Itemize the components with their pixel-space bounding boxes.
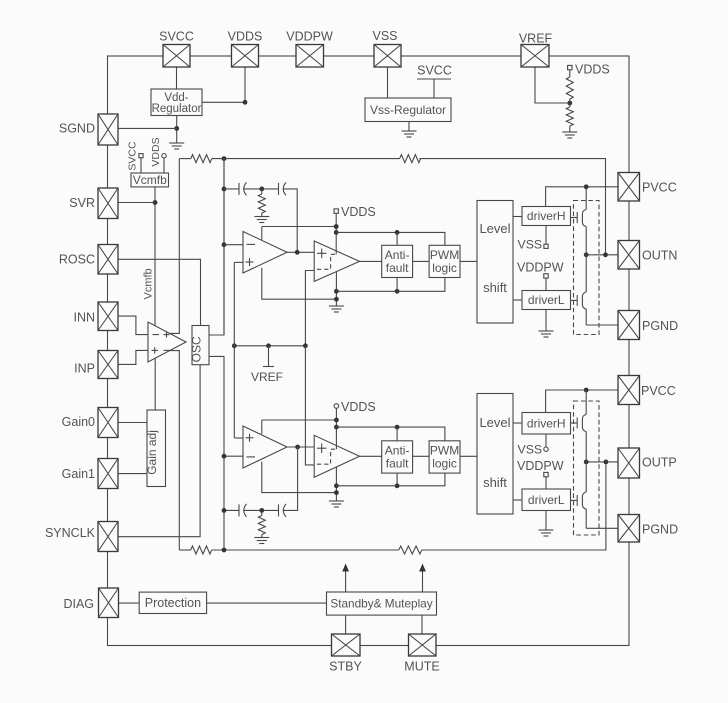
svg-text:Protection: Protection <box>145 596 201 610</box>
op-amp U8 integrator ch1 <box>243 232 287 274</box>
wire input amp out+ to summing node 1 <box>170 159 180 334</box>
svg-text:INP: INP <box>74 362 95 376</box>
svg-text:Vcmfb: Vcmfb <box>143 268 155 299</box>
resistor R divider lower <box>566 107 573 126</box>
block Vcmfb U4 <box>131 173 169 187</box>
ground Vss-Regulator ground <box>402 131 417 137</box>
wire U12 supply line <box>262 419 337 421</box>
minus sign U6 in- <box>153 334 160 336</box>
junction cap junction ch1 <box>259 187 264 192</box>
wire Q4 drain to node <box>585 462 587 492</box>
pad Gain0 <box>98 408 118 438</box>
svg-text:ROSC: ROSC <box>59 253 95 267</box>
svg-text:PGND: PGND <box>642 523 678 537</box>
pad OUTP <box>618 448 640 478</box>
wire R to ground ch2 <box>261 535 263 538</box>
wire OSC to integrator2 node <box>209 356 224 550</box>
wire pwm to level shift ch2 <box>460 455 477 457</box>
half-bridge dashed box ch1 <box>574 201 600 335</box>
ground driverL1 ground <box>539 331 554 337</box>
wire cap junction to R stem ch1 <box>261 189 263 194</box>
wire Vss-Regulator ground stem <box>408 122 410 132</box>
pad STBY <box>332 634 361 656</box>
block Vss-Regulator U3 <box>365 98 451 122</box>
wire OSC to integrator1 node <box>209 159 224 335</box>
wire driverL1 gate lead <box>571 299 578 301</box>
junction PVCC-FET tap ch2 <box>584 388 589 393</box>
svg-text:shift: shift <box>483 280 507 295</box>
wire Q4 source to PGND <box>585 509 587 528</box>
block Anti-fault U14 ch2 <box>382 441 413 473</box>
block Level shift U19 ch2 <box>477 394 513 515</box>
svg-text:Standby& Muteplay: Standby& Muteplay <box>330 597 432 611</box>
wire triangle wave input ch1 <box>305 271 314 346</box>
junction VDDS rail tap ch1 <box>334 230 339 235</box>
wire U8 return exit <box>262 268 337 300</box>
pad PVCC ch1 <box>618 173 640 202</box>
junction cap junction ch2 <box>259 508 264 513</box>
svg-text:OUTN: OUTN <box>642 249 677 263</box>
junction antifault top tap ch1 <box>395 230 400 235</box>
svg-text:VDDS: VDDS <box>228 30 263 44</box>
resistor R feedback ch1 <box>400 155 421 163</box>
svg-text:VSS: VSS <box>518 238 543 252</box>
minus sign U6 out- <box>164 349 170 351</box>
wire antifault bottom stub ch2 <box>396 473 398 486</box>
svg-text:VDDS: VDDS <box>341 400 376 414</box>
plus sign U6 in+ <box>152 347 159 353</box>
svg-text:SYNCLK: SYNCLK <box>45 526 96 540</box>
wire comparator2 output <box>360 455 382 457</box>
transistor Q4 low-side ch2 <box>577 492 586 509</box>
svg-text:INN: INN <box>73 311 95 325</box>
pad VSS <box>374 45 401 68</box>
junction half-bridge node ch1 <box>584 252 589 257</box>
wire LS to driverH ch2 <box>513 422 522 424</box>
wire VDDS terminal stem <box>569 70 571 77</box>
wire minus input wire ch1 <box>224 244 243 246</box>
wire LS to driverL ch1 <box>513 299 522 301</box>
wire pwm to level shift ch1 <box>460 260 477 262</box>
svg-text:SVCC: SVCC <box>127 141 139 171</box>
wire return rail ch1 <box>336 278 445 292</box>
capacitor C3 ch2 <box>239 504 247 517</box>
wire VREF symbol stem <box>268 346 270 367</box>
wire VDDS rail ch1 <box>336 232 445 245</box>
junction minus input node ch2 <box>222 454 227 459</box>
svg-text:Vcmfb: Vcmfb <box>133 173 167 187</box>
wire feedback net OUTN segment c <box>419 159 605 255</box>
wire feedback net OUTP segment c <box>422 462 606 550</box>
wire U8 output <box>287 251 314 253</box>
svg-text:PWM: PWM <box>430 248 459 262</box>
wire SVR pad to Vcmfb line <box>118 202 155 204</box>
block Standby and Muteplay U23 <box>327 592 437 615</box>
wire antifault to pwm ch1 <box>413 260 430 262</box>
block driverL U21 ch2 <box>522 489 571 511</box>
junction VDDS supply tap ch1 <box>334 224 339 229</box>
wire SVCC pad to Vdd-Regulator <box>176 67 178 89</box>
wire feedback net OUTP segment a <box>179 549 190 551</box>
op-amp U12 integrator ch2 <box>243 426 287 468</box>
junction integrator2 output node <box>295 445 300 450</box>
wire divider to ground <box>569 126 571 132</box>
wire Q3 source to node <box>585 432 587 462</box>
pad MUTE <box>409 634 437 656</box>
pad Gain1 <box>98 459 118 489</box>
block driverH U17 ch1 <box>522 207 571 226</box>
junction antifault top tap ch2 <box>395 425 400 430</box>
VDDPW terminal ch2 <box>544 472 548 476</box>
wire VREF rail <box>234 345 305 347</box>
junction integrator return tap ch2 <box>334 490 339 495</box>
wire INN pad to input amp <box>118 316 148 335</box>
wire Q2 drain to node <box>585 255 587 292</box>
svg-text:VDDS: VDDS <box>341 205 376 219</box>
wire OUTN wire <box>586 254 618 256</box>
junction PVCC-FET tap ch1 <box>584 184 589 189</box>
wire VDDS stem ch1 <box>335 213 337 254</box>
wire minus input wire ch2 <box>224 455 243 457</box>
wire VSS pad to Vss-Regulator <box>387 67 389 98</box>
wire driverH2 to VSS terminal <box>545 434 547 447</box>
SVCC rail bar <box>417 78 451 80</box>
junction cap node ch1 <box>222 187 227 192</box>
svg-text:VSS: VSS <box>518 443 543 457</box>
VDDS terminal square top-right <box>568 65 572 69</box>
pad PGND ch1 <box>618 311 640 340</box>
resistor R divider upper <box>566 77 573 99</box>
capacitor C4 ch2 <box>279 504 287 517</box>
wire R to ground ch1 <box>261 213 263 217</box>
transistor Q3 high-side ch2 <box>577 415 586 432</box>
svg-text:shift: shift <box>483 475 507 490</box>
wire antifault to pwm ch2 <box>413 455 430 457</box>
capacitor C1 ch1 <box>239 182 247 195</box>
svg-text:OSC: OSC <box>190 336 204 362</box>
wire PVCC wire ch1 <box>546 187 618 207</box>
svg-text:Level: Level <box>479 415 510 430</box>
junction antifault bottom tap ch2 <box>395 483 400 488</box>
pad PGND ch2 <box>618 515 640 543</box>
junction VDDS supply tap ch2 <box>334 418 339 423</box>
VDDS terminal circle ch2 <box>334 404 339 409</box>
pad ROSC <box>98 245 118 275</box>
svg-text:logic: logic <box>432 261 457 275</box>
comparator U9 ch1 <box>314 241 359 281</box>
block Vdd-Regulator U2 <box>151 89 202 116</box>
svg-text:VREF: VREF <box>251 370 283 384</box>
VSS terminal ch1 <box>544 244 548 248</box>
wire LS to driverH ch1 <box>513 216 522 218</box>
minus sign U12 <box>247 456 256 458</box>
wire VDDS rail ch2 <box>336 427 445 441</box>
plus sign U8 <box>246 258 254 266</box>
svg-text:Vss-Regulator: Vss-Regulator <box>370 103 446 117</box>
chip outer border <box>108 56 630 646</box>
resistor R cap ch2 <box>258 516 265 535</box>
wire comparator2 return <box>335 467 337 501</box>
svg-text:Anti-: Anti- <box>385 444 410 458</box>
pad DIAG <box>99 588 119 618</box>
svg-text:Gain adj: Gain adj <box>145 430 159 475</box>
transistor Q1 high-side ch1 <box>577 210 586 227</box>
wire SGND pad to ground node <box>118 127 177 129</box>
wire driverL2 ground stem <box>545 511 547 531</box>
svg-text:OUTP: OUTP <box>642 456 677 470</box>
pad OUTN <box>618 241 640 270</box>
wire Vcmfb to input amp <box>154 187 156 326</box>
wire ROSC pad to OSC <box>118 259 201 325</box>
svg-text:STBY: STBY <box>329 660 362 674</box>
junction VDDS rail tap ch2 <box>334 425 339 430</box>
wire Q2 source to PGND <box>585 309 587 325</box>
wire standby control arrow line 2 <box>422 567 424 592</box>
wire plus input wire ch1 <box>234 261 243 263</box>
svg-text:VREF: VREF <box>519 32 553 46</box>
VDDS terminal square ch1 <box>334 209 338 213</box>
junction half-bridge node ch2 <box>584 460 589 465</box>
wire Q1 drain <box>585 187 587 210</box>
svg-text:SVCC: SVCC <box>159 30 194 44</box>
wire SYNCLK pad to OSC <box>118 365 200 537</box>
wire comparator1 output <box>360 260 382 262</box>
wire PGND wire ch2 <box>586 527 618 529</box>
pad INN <box>98 302 118 331</box>
junction summing node ch2 <box>222 548 227 553</box>
wire driverH1 to VSS terminal <box>545 226 547 245</box>
wire Gain0 pad to Gain adj <box>118 422 147 424</box>
wire integrator1 input node vertical <box>223 159 225 335</box>
svg-text:Anti-: Anti- <box>385 248 410 262</box>
junction minus input node ch1 <box>222 242 227 247</box>
junction return rail tap ch2 <box>334 483 339 488</box>
svg-text:Gain0: Gain0 <box>62 415 95 429</box>
pad SGND <box>98 114 118 145</box>
wire U8 supply entry <box>261 227 263 241</box>
minus sign U8 <box>247 243 256 245</box>
hysteresis symbol U13 <box>317 449 338 464</box>
wire return rail ch2 <box>336 473 445 486</box>
svg-text:driverL: driverL <box>528 493 565 507</box>
svg-text:VDDPW: VDDPW <box>517 459 564 473</box>
wire U12 return exit <box>262 462 337 493</box>
pad VDDS <box>232 45 259 68</box>
wire SVCC terminal to Vcmfb <box>140 158 142 173</box>
junction divider midpoint <box>567 101 572 106</box>
svg-text:VDDS: VDDS <box>575 63 610 77</box>
wire U12 supply entry <box>261 420 263 434</box>
block Level shift U16 ch1 <box>477 201 513 324</box>
wire LS to driverL ch2 <box>513 499 522 501</box>
plus sign U12 <box>246 434 254 442</box>
wire SVCC bar to Vss-Regulator <box>433 79 435 98</box>
junction SGND node <box>174 126 179 131</box>
transistor Q2 low-side ch1 <box>577 292 586 309</box>
junction antifault bottom tap ch1 <box>395 289 400 294</box>
block OSC U5 <box>192 326 209 365</box>
plus sign U9 <box>317 249 327 259</box>
junction cap node ch2 <box>222 508 227 513</box>
svg-text:Regulator: Regulator <box>152 103 202 115</box>
pad PVCC ch2 <box>618 376 640 405</box>
pad SYNCLK <box>98 522 118 552</box>
svg-text:driverL: driverL <box>528 293 565 307</box>
svg-text:SVCC: SVCC <box>417 64 452 78</box>
wire U12 output <box>287 446 314 448</box>
hysteresis symbol U9 <box>317 254 338 269</box>
wire VREF pad to divider <box>535 67 570 103</box>
wire feedback net OUTP segment b <box>212 549 399 551</box>
wire cap junction to R stem ch2 <box>261 510 263 515</box>
svg-text:MUTE: MUTE <box>404 660 439 674</box>
svg-text:driverH: driverH <box>527 209 566 223</box>
wire DIAG pad to Protection <box>119 602 140 604</box>
wire antifault top stub ch2 <box>396 427 398 441</box>
pad SVR <box>98 188 118 219</box>
arrowhead 1 <box>342 564 349 572</box>
junction integrator1 output node <box>295 250 300 255</box>
block driverH U20 ch2 <box>522 413 571 435</box>
svg-text:PWM: PWM <box>430 444 459 458</box>
wire Vdd-Regulator ground stem <box>176 116 178 144</box>
svg-text:fault: fault <box>386 261 409 275</box>
VDDS terminal circle <box>162 154 166 158</box>
wire driverH2 gate lead <box>571 422 578 424</box>
wire PVCC wire ch2 <box>546 390 618 413</box>
SVCC terminal square <box>139 154 143 158</box>
capacitor C2 ch1 <box>279 182 287 195</box>
svg-text:PGND: PGND <box>642 319 678 333</box>
junction VREF rail right <box>303 343 308 348</box>
wire VDDPW terminal to driverL1 <box>545 278 547 290</box>
resistor R cap ch1 <box>258 194 265 213</box>
plus sign U13 <box>317 443 327 453</box>
wire cap feedback line ch2 <box>224 447 298 510</box>
pad VDDPW <box>296 45 324 68</box>
junction feedback tap OUTN <box>603 252 608 257</box>
resistor R input ch2 <box>191 546 212 554</box>
svg-text:SVR: SVR <box>69 196 95 210</box>
junction VREF rail left <box>232 343 237 348</box>
wire Protection to Standby <box>207 602 327 604</box>
plus sign U6 out+ <box>164 332 170 338</box>
wire VDDS terminal to Vcmfb <box>163 158 165 173</box>
resistor R feedback ch2 <box>399 546 422 554</box>
wire Q3 drain <box>585 390 587 415</box>
wire STBY pad stem <box>345 615 347 634</box>
svg-text:DIAG: DIAG <box>63 597 94 611</box>
wire divider mid segment <box>569 99 571 107</box>
wire antifault bottom stub ch1 <box>396 278 398 292</box>
block PWM logic U11 ch1 <box>429 245 460 277</box>
junction return rail tap ch1 <box>334 289 339 294</box>
wire VDDPW terminal to driverL2 <box>545 477 547 489</box>
wire input amp out- to summing node 2 <box>170 351 180 550</box>
junction SVR-Vcmfb junction <box>153 200 158 205</box>
wire comparator1 return <box>335 272 337 306</box>
ground SGND ground <box>169 143 184 149</box>
wire feedback net OUTN segment b <box>212 158 400 160</box>
wire INP pad to input amp <box>118 350 148 364</box>
wire driverL1 ground stem <box>545 310 547 332</box>
wire antifault top stub ch1 <box>396 232 398 245</box>
junction integrator return tap ch1 <box>334 297 339 302</box>
junction VREF rail tap <box>266 343 271 348</box>
VDDPW terminal ch1 <box>544 274 548 278</box>
wire PGND wire ch1 <box>586 324 618 326</box>
wire plus input wire ch2 <box>234 437 243 439</box>
svg-text:VDDPW: VDDPW <box>286 30 333 44</box>
block Protection U22 <box>139 592 206 613</box>
wire VDDS pad to Vdd-Regulator output <box>202 67 245 102</box>
VSS terminal ch2 <box>544 447 548 451</box>
svg-text:fault: fault <box>386 457 409 471</box>
block PWM logic U15 ch2 <box>429 441 460 473</box>
op-amp U6 input stage <box>148 322 186 362</box>
wire MUTE pad stem <box>421 615 423 634</box>
wire cap feedback line ch1 <box>224 189 297 252</box>
junction VDDS-regulator junction <box>243 100 248 105</box>
VREF rail bar <box>263 366 274 368</box>
svg-text:VDDPW: VDDPW <box>517 261 564 275</box>
junction feedback tap OUTP <box>604 460 609 465</box>
wire OUTP wire <box>586 461 618 463</box>
wire driverL2 gate lead <box>571 499 578 501</box>
wire Q1 source to node <box>585 227 587 255</box>
svg-text:VSS: VSS <box>372 29 397 43</box>
ground cap network ground ch2 <box>254 538 269 544</box>
ground logic ground ch2 <box>329 501 344 507</box>
arrowhead 2 <box>419 564 426 572</box>
wire U8 supply line <box>262 226 336 228</box>
wire standby control arrow line 1 <box>345 567 347 592</box>
comparator U13 ch2 <box>314 435 359 477</box>
svg-text:driverH: driverH <box>527 416 566 430</box>
block driverL U18 ch1 <box>522 291 571 310</box>
resistor R input ch1 <box>191 155 212 163</box>
ground driverL2 ground <box>539 530 554 536</box>
wire feedback net OUTN segment a <box>179 158 191 160</box>
junction summing node ch1 <box>222 156 227 161</box>
ground logic ground ch1 <box>329 306 344 312</box>
svg-text:SGND: SGND <box>59 122 95 136</box>
ground cap network ground ch1 <box>254 217 269 223</box>
ground divider ground <box>562 132 577 138</box>
svg-text:logic: logic <box>432 457 457 471</box>
svg-text:VDDS: VDDS <box>150 137 162 166</box>
pad INP <box>98 351 118 379</box>
wire Gain1 pad to Gain adj <box>118 473 147 475</box>
half-bridge dashed box ch2 <box>574 401 600 535</box>
block Gain adj U7 <box>147 410 166 487</box>
wire VREF to integrator plus inputs <box>233 262 235 438</box>
wire Gain adj to input amp <box>154 358 156 410</box>
wire VDDS stem ch2 <box>335 408 337 449</box>
block Anti-fault U10 ch1 <box>382 245 413 277</box>
pad VREF <box>521 45 549 68</box>
wire driverH1 gate lead <box>571 217 578 219</box>
svg-text:Gain1: Gain1 <box>62 467 95 481</box>
wire triangle wave input ch2 <box>305 346 314 465</box>
svg-text:PVCC: PVCC <box>642 181 677 195</box>
svg-text:PVCC: PVCC <box>641 384 676 398</box>
svg-text:Level: Level <box>479 221 510 236</box>
pad SVCC <box>163 45 190 68</box>
